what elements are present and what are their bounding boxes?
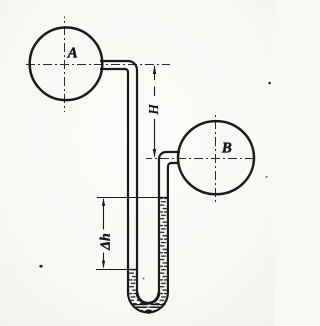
speck dot between tubes [143,278,145,280]
dimension dh bottom arrow [102,261,105,269]
dark meniscus blob at bottom of U-bend [145,310,152,314]
label H [149,104,158,115]
liquid surface line left tube [128,269,137,271]
label A [67,48,77,58]
tube wall W1: A top wall, left-tube right wall, inner U arc, right-tube left wall, B top wall [100,61,180,304]
liquid surface line right tube [159,197,169,199]
speck dot bottom left [39,265,42,268]
vessel B centerline vertical [215,113,217,204]
dimension H line [154,66,156,96]
tube wall W2: A bottom wall, left-tube left wall, outer U arc, right-tube right wall, B bottom wall [100,69,179,312]
dimension H bottom arrow [153,149,156,158]
speck dot upper right [268,82,271,85]
dimension H top arrow [153,65,156,74]
label B [222,143,232,153]
label dh [100,234,110,250]
vessel A circle [30,28,103,101]
extension line lower liquid level [96,269,137,271]
vessel B centerline horizontal (extension line for H bottom) [146,158,254,160]
dimension dh line [103,199,105,230]
dimension dh top arrow [102,198,105,206]
dark liquid streaks at bottom of U-bend [134,304,166,306]
speck dot right [266,176,268,178]
inner U-bend arc thickening [137,293,159,304]
extension line upper liquid level [97,197,169,199]
vessel A centerline horizontal (extension line for H) [23,64,170,66]
vessel A centerline vertical [64,17,66,113]
liquid in U-tube (hatched) [129,197,168,312]
vessel B circle [178,121,254,194]
